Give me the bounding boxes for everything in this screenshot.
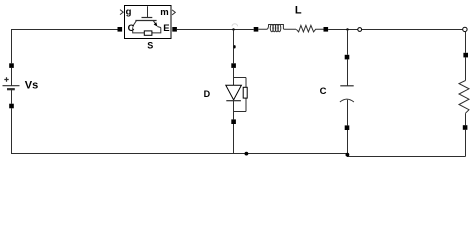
junction dot — [245, 152, 249, 156]
wire — [465, 113, 467, 125]
IGBT icon snubber resistor — [144, 31, 152, 35]
wire — [11, 108, 13, 153]
diode D anode port — [231, 63, 236, 68]
bottom rail left — [11, 153, 348, 155]
output arrow m — [172, 10, 175, 15]
gate input arrow — [120, 10, 123, 15]
svg-text:m: m — [160, 7, 168, 18]
svg-text:C: C — [320, 86, 327, 97]
inductor coil — [258, 25, 296, 30]
IGBT icon emitter arrow — [154, 22, 158, 26]
wire — [347, 59, 349, 85]
wire — [465, 130, 467, 157]
IGBT S collector port square — [118, 27, 123, 32]
diode D triangle — [226, 85, 242, 100]
IGBT S emitter port square — [172, 27, 177, 32]
voltage source Vs bottom port — [9, 104, 14, 109]
inductor L left port — [254, 27, 259, 32]
IGBT icon gate lead — [147, 6, 149, 17]
junction: capacitor tap — [346, 28, 348, 30]
battery bottom plate — [7, 88, 15, 90]
inductor coil loop 1 — [270, 24, 273, 31]
L internal resistor zigzag — [296, 25, 323, 32]
inductor coil loop 3 — [275, 24, 278, 31]
junction: diode tap — [232, 28, 234, 30]
battery top plate — [3, 85, 20, 87]
voltage source Vs top port — [9, 63, 14, 68]
wire — [465, 57, 467, 80]
inductor coil loop 4 — [278, 24, 281, 31]
capacitor C bottom port — [345, 125, 350, 130]
load resistor bottom port — [463, 125, 468, 130]
wire: inductor to load — [328, 29, 462, 31]
wire: source to top rail to switch C — [12, 30, 118, 64]
capacitor branch wire — [347, 30, 349, 55]
diode snubber resistor — [243, 87, 247, 98]
wire — [11, 90, 13, 104]
svg-text:g: g — [126, 6, 132, 17]
diode snubber right branch — [245, 78, 247, 112]
diode D cathode port — [231, 119, 236, 124]
wire — [11, 68, 13, 86]
wire — [233, 68, 235, 85]
bottom rail right — [347, 156, 466, 158]
IGBT icon gate bar — [142, 17, 153, 19]
wire nub — [234, 45, 236, 48]
node bubble right — [463, 27, 467, 31]
wire — [233, 101, 235, 120]
inductor L right port — [324, 27, 329, 32]
IGBT icon emitter link — [157, 27, 161, 28]
IGBT icon body bar — [135, 20, 156, 22]
svg-text:D: D — [204, 89, 211, 99]
IGBT icon collector slant — [133, 20, 137, 26]
diode snubber loop top — [234, 77, 247, 79]
inductor coil loop 2 — [273, 24, 276, 31]
IGBT icon snubber loop — [133, 27, 161, 33]
svg-text:C: C — [128, 23, 135, 34]
svg-text:L: L — [295, 5, 302, 17]
capacitor bottom plate arc — [340, 99, 354, 102]
svg-text:Vs: Vs — [25, 80, 38, 92]
diode snubber loop bottom — [234, 111, 247, 113]
faint erased-line mark — [232, 24, 238, 27]
diode branch wire — [233, 30, 235, 64]
wire: switch to inductor — [177, 29, 254, 31]
wire — [465, 31, 467, 52]
diode D cathode bar — [226, 100, 241, 102]
junction dot — [346, 153, 350, 157]
load resistor zigzag — [459, 81, 469, 114]
node bubble — [358, 28, 362, 32]
IGBT icon emitter slant — [153, 20, 157, 25]
wire — [347, 130, 349, 157]
capacitor C top port — [345, 55, 350, 60]
wire — [347, 100, 349, 126]
svg-text:E: E — [163, 23, 169, 34]
IGBT block S body — [125, 6, 172, 39]
load resistor top port — [463, 53, 468, 58]
battery plus sign — [4, 77, 8, 81]
wire — [233, 124, 235, 154]
capacitor top plate — [340, 85, 353, 87]
svg-text:S: S — [147, 41, 153, 51]
